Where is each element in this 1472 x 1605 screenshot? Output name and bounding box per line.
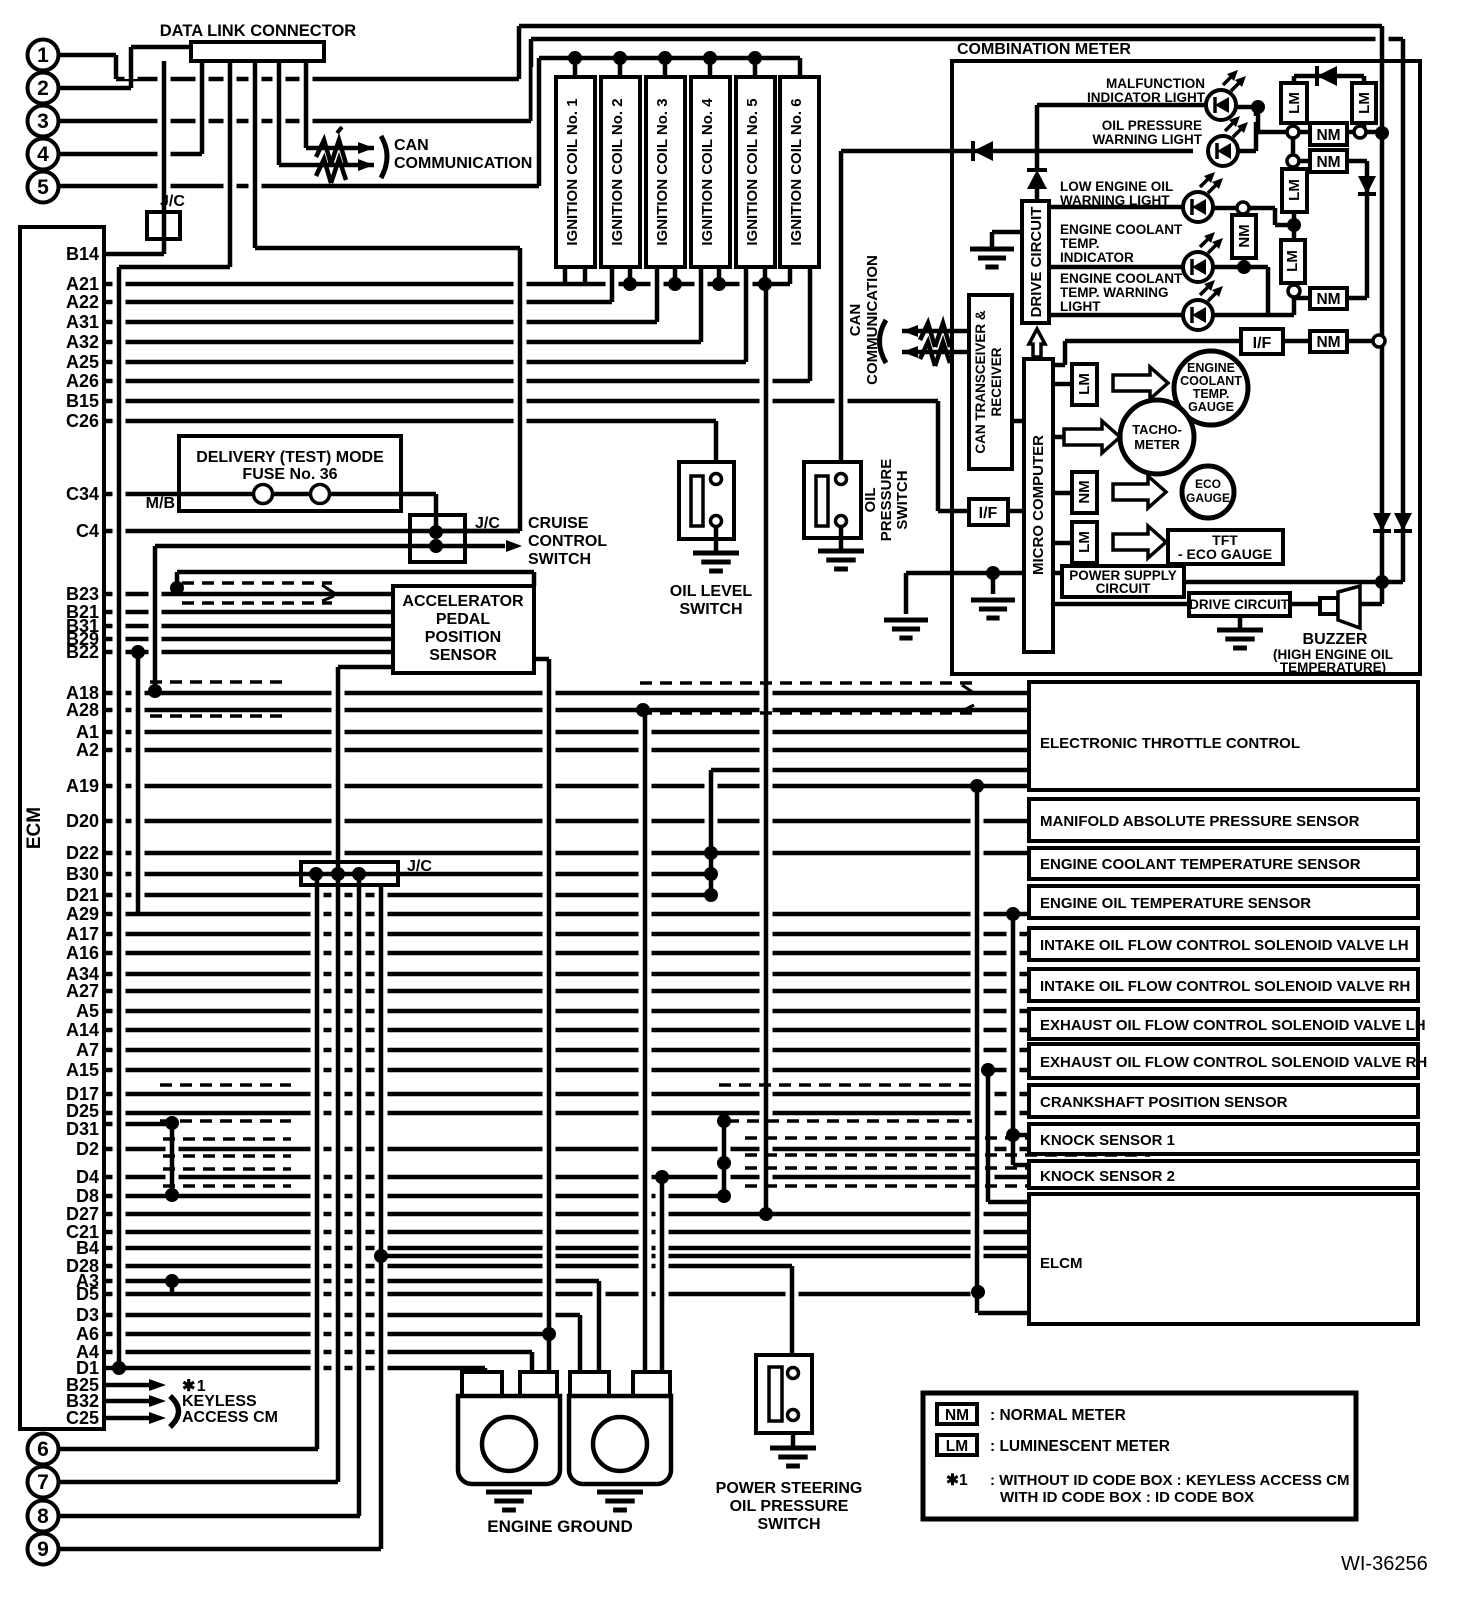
- wire left rail to D1: [113, 276, 126, 1359]
- wire buzzer rail a: [1376, 35, 1389, 595]
- wire micro to LM1: [1053, 382, 1072, 387]
- svg-text:OIL LEVEL: OIL LEVEL: [670, 583, 753, 600]
- wire coil top leg 2: [614, 67, 627, 68]
- svg-text:CONTROL: CONTROL: [528, 533, 607, 550]
- svg-text:B22: B22: [66, 642, 99, 662]
- junction right knock drains: [717, 1114, 731, 1128]
- svg-text:ENGINE: ENGINE: [1187, 361, 1235, 375]
- legend LM symbol: [937, 1435, 977, 1455]
- svg-text:NM: NM: [1316, 154, 1340, 171]
- wire node3 J/C feed: [255, 246, 520, 251]
- arrow micro to drive circuit: [1029, 329, 1045, 357]
- TFT eco gauge box: [1168, 530, 1283, 564]
- svg-text:RECEIVER: RECEIVER: [989, 347, 1004, 416]
- svg-text:J/C: J/C: [407, 858, 432, 875]
- PSP ground: [791, 1433, 796, 1448]
- svg-text:OIL PRESSURE: OIL PRESSURE: [1102, 118, 1202, 133]
- svg-text:A2: A2: [76, 740, 99, 760]
- oil pressure switch slot: [816, 476, 828, 526]
- wire A4 drop to ground: [526, 1361, 539, 1365]
- svg-text:: NORMAL METER: : NORMAL METER: [990, 1407, 1126, 1424]
- svg-text:TEMP. WARNING: TEMP. WARNING: [1060, 285, 1169, 300]
- wire NM3 left: [1294, 296, 1310, 301]
- manifold absolute pressure sensor box: [1029, 799, 1418, 841]
- wire from node 1: [59, 53, 116, 58]
- svg-text:D27: D27: [66, 1204, 99, 1224]
- junction node9/ELCM: [374, 1249, 388, 1263]
- node 5 (circled connector 5): [28, 172, 59, 203]
- wire right knock shield drain: [718, 1119, 731, 1187]
- svg-text:IGNITION COIL No. 4: IGNITION COIL No. 4: [699, 98, 716, 246]
- svg-text:A29: A29: [66, 904, 99, 924]
- buzzer: [1320, 598, 1338, 614]
- wire A14: [104, 1028, 1029, 1033]
- I/F box 1: [969, 499, 1008, 525]
- svg-text:PEDAL: PEDAL: [436, 611, 490, 628]
- power steering oil pressure switch box: [756, 1355, 812, 1433]
- wire B15 to I/F: [938, 509, 969, 514]
- svg-text:TEMP.: TEMP.: [1193, 387, 1230, 401]
- wire B15: [104, 399, 938, 404]
- wire coil6 right leg: [804, 275, 817, 372]
- wire C21: [104, 1230, 1029, 1235]
- wire micro to PSC: [1053, 571, 1062, 576]
- wire B31: [104, 624, 393, 629]
- svg-text:CRUISE: CRUISE: [528, 515, 589, 532]
- wire D20: [104, 819, 1029, 824]
- engine oil temperature sensor box: [1029, 886, 1418, 918]
- wire CAN L: [902, 350, 969, 355]
- legend NM symbol: [937, 1404, 977, 1424]
- wire A15: [104, 1068, 1029, 1073]
- wire meter ground stem b: [987, 582, 1000, 596]
- wire buzzer rail b: [1397, 48, 1410, 573]
- svg-text:LM: LM: [1286, 179, 1303, 201]
- wire riser node3: [525, 48, 538, 112]
- wire A29 knock rail: [1007, 923, 1020, 1156]
- diode MIL drive: [1027, 168, 1047, 172]
- tachometer: [1120, 400, 1194, 474]
- wire accel sensor top feed: [177, 570, 534, 575]
- junction MIL/OPWL: [1251, 100, 1265, 114]
- svg-text:B14: B14: [66, 244, 99, 264]
- wire LEOWL: [1049, 205, 1183, 210]
- LED engine coolant temp warning light: [1183, 300, 1213, 330]
- wire J/C bottom to cruise switch: [155, 544, 505, 549]
- shield A18/A28 left (dashed): [150, 680, 285, 684]
- svg-text:COOLANT: COOLANT: [1180, 374, 1242, 388]
- wire coil6 left leg: [788, 266, 793, 284]
- oil pressure switch ground: [839, 527, 844, 551]
- wire J/C top: [436, 529, 520, 534]
- wire NM2 right: [1347, 159, 1367, 164]
- LED engine coolant temp indicator: [1183, 252, 1213, 282]
- svg-text:GAUGE: GAUGE: [1186, 491, 1230, 505]
- wire from node 7: [59, 1480, 338, 1485]
- svg-text:C25: C25: [66, 1408, 99, 1428]
- fuse terminal circles: [254, 485, 273, 504]
- svg-text:EXHAUST OIL FLOW CONTROL SOLEN: EXHAUST OIL FLOW CONTROL SOLENOID VALVE …: [1040, 1017, 1426, 1034]
- junction A29: [1006, 907, 1020, 921]
- svg-text:CAN TRANSCEIVER &: CAN TRANSCEIVER &: [973, 310, 988, 454]
- wire D2: [104, 1147, 1029, 1152]
- svg-text:WITH ID CODE BOX : ID CODE BO: WITH ID CODE BOX : ID CODE BOX: [1000, 1489, 1254, 1506]
- svg-text:IGNITION COIL No. 5: IGNITION COIL No. 5: [744, 98, 761, 245]
- svg-text:CAN: CAN: [394, 137, 429, 154]
- junction B23 shield: [170, 581, 184, 595]
- svg-text:ELCM: ELCM: [1040, 1255, 1083, 1272]
- wire A3 drop to ground: [593, 1290, 606, 1365]
- drive circuit box: [1022, 201, 1049, 323]
- engine coolant temp gauge: [1174, 351, 1248, 425]
- svg-text:8: 8: [37, 1505, 49, 1528]
- oil level switch pins: [711, 474, 722, 485]
- wire A2: [104, 748, 1029, 753]
- wire coil top leg 4: [704, 67, 717, 68]
- wire coil5 right leg: [763, 266, 768, 284]
- svg-text:DRIVE CIRCUIT: DRIVE CIRCUIT: [1189, 597, 1290, 612]
- wire DLC leg 3: [249, 70, 262, 239]
- wire C26 drop to oil level switch: [710, 430, 723, 464]
- svg-text:- ECO GAUGE: - ECO GAUGE: [1178, 546, 1272, 562]
- junction A18 shield: [148, 684, 162, 698]
- wire coil top leg 1: [569, 67, 582, 68]
- svg-text:D22: D22: [66, 843, 99, 863]
- wire A3: [104, 1279, 599, 1284]
- wire A19 rail: [971, 795, 984, 1304]
- wire A28: [104, 708, 1029, 713]
- wire rail node8: [353, 883, 366, 1507]
- wire I/F2 feed riser: [1059, 350, 1072, 356]
- svg-text:NM: NM: [945, 1407, 969, 1424]
- oil pressure switch box: [804, 462, 861, 538]
- engine ground terminal 2: [570, 1372, 609, 1396]
- svg-text:LOW ENGINE OIL: LOW ENGINE OIL: [1060, 179, 1173, 194]
- wire DC2 to buzzer: [1290, 602, 1320, 607]
- wire LM top link: [1294, 74, 1364, 79]
- svg-text:EXHAUST OIL FLOW CONTROL SOLEN: EXHAUST OIL FLOW CONTROL SOLENOID VALVE …: [1040, 1054, 1427, 1071]
- shield A18/A28 right (dashed): [640, 681, 975, 685]
- ground drive circuit: [990, 232, 995, 249]
- ground meter b: [971, 598, 1015, 603]
- intake oil flow control solenoid valve RH box: [1029, 969, 1418, 1001]
- wire OPWL feed entry: [841, 149, 952, 154]
- svg-text:SWITCH: SWITCH: [679, 601, 742, 618]
- node 7 (circled connector 7): [28, 1467, 59, 1498]
- svg-text:ACCELERATOR: ACCELERATOR: [402, 593, 524, 610]
- ground symbol 1: [486, 1490, 532, 1495]
- svg-text:A31: A31: [66, 312, 99, 332]
- junction D1/left rail: [112, 1361, 126, 1375]
- oil level switch slot: [691, 476, 703, 526]
- wire from node 2: [59, 86, 131, 91]
- svg-text:A32: A32: [66, 332, 99, 352]
- diode OPWL feed: [971, 141, 975, 161]
- svg-text:FUSE No. 36: FUSE No. 36: [242, 466, 337, 483]
- wire A31: [104, 320, 657, 325]
- wire D28: [104, 1264, 792, 1269]
- svg-text:I/F: I/F: [979, 505, 998, 522]
- wire NMv top leg: [1242, 208, 1247, 215]
- svg-text:PRESSURE: PRESSURE: [878, 459, 895, 542]
- diode NM2 chain: [1358, 192, 1376, 196]
- svg-text:: LUMINESCENT METER: : LUMINESCENT METER: [990, 1438, 1170, 1455]
- PSP switch slot: [769, 1367, 782, 1421]
- wire B21: [104, 610, 393, 615]
- junction left knock drains: [165, 1116, 179, 1130]
- NM gauge box: [1072, 472, 1097, 513]
- svg-text:INTAKE OIL FLOW CONTROL SOLENO: INTAKE OIL FLOW CONTROL SOLENOID VALVE L…: [1040, 937, 1409, 954]
- svg-text:COMMUNICATION: COMMUNICATION: [864, 255, 881, 385]
- wire A19: [104, 784, 1029, 789]
- NM box 3: [1310, 288, 1347, 309]
- wire C34: [104, 492, 254, 497]
- ignition supply bus: [539, 56, 800, 61]
- svg-text:CRANKSHAFT POSITION SENSOR: CRANKSHAFT POSITION SENSOR: [1040, 1094, 1288, 1111]
- svg-text:A22: A22: [66, 292, 99, 312]
- svg-text:BUZZER: BUZZER: [1303, 631, 1368, 648]
- node 8 (circled connector 8): [28, 1501, 59, 1532]
- svg-text:DELIVERY (TEST) MODE: DELIVERY (TEST) MODE: [196, 449, 384, 466]
- wire coil1 left leg: [563, 266, 568, 284]
- svg-text:D3: D3: [76, 1305, 99, 1325]
- wire D31: [104, 1122, 172, 1127]
- junction A6 ground: [542, 1327, 556, 1341]
- arrow to ECT gauge: [1113, 367, 1168, 399]
- svg-text:NM: NM: [1076, 480, 1093, 503]
- wire coil5 left leg: [740, 275, 753, 353]
- svg-text:IGNITION COIL No. 1: IGNITION COIL No. 1: [564, 98, 581, 245]
- junction D31 branch: [1006, 1128, 1020, 1142]
- wire I/F2 feed: [1065, 339, 1241, 344]
- wire D4 drain to ground: [656, 1186, 669, 1365]
- wire NM2 diode riser: [1361, 170, 1374, 289]
- wire D25: [104, 1111, 1029, 1116]
- junction connector J/C (DLC): [147, 212, 180, 239]
- wire KN2 feed: [1013, 1163, 1029, 1168]
- wire D1: [104, 1366, 485, 1371]
- svg-text:1: 1: [37, 44, 49, 67]
- svg-text:POSITION: POSITION: [425, 629, 501, 646]
- svg-text:A15: A15: [66, 1060, 99, 1080]
- wire riser node1 jog: [110, 64, 123, 70]
- wire from node 9: [59, 1547, 381, 1552]
- wire A18: [104, 691, 1029, 696]
- svg-text:LM: LM: [1076, 531, 1093, 553]
- svg-text:D4: D4: [76, 1167, 99, 1187]
- wire shield drain left knock: [166, 1119, 179, 1186]
- LED low engine oil warning light: [1183, 192, 1213, 222]
- wire KN1 feed: [1013, 1133, 1029, 1138]
- node 6 (circled connector 6): [28, 1434, 59, 1465]
- knock sensor 2 box: [1029, 1161, 1418, 1188]
- svg-text:A6: A6: [76, 1324, 99, 1344]
- svg-text:LM: LM: [1076, 373, 1093, 395]
- ground symbol 2: [597, 1490, 643, 1495]
- wire riser node2 jog: [125, 56, 138, 79]
- wire CANTR to micro: [1012, 419, 1024, 424]
- LM box 3: [1282, 169, 1307, 212]
- wire D22: [104, 851, 1029, 856]
- svg-text:A26: A26: [66, 371, 99, 391]
- shield crankshaft right (dashed): [719, 1083, 972, 1087]
- NM box vertical: [1232, 215, 1256, 258]
- wire C4: [104, 529, 520, 534]
- svg-text:DRIVE CIRCUIT: DRIVE CIRCUIT: [1028, 207, 1045, 318]
- svg-text:SWITCH: SWITCH: [757, 1516, 820, 1533]
- junction buzzer rail bottom: [1375, 575, 1389, 589]
- svg-text:A17: A17: [66, 924, 99, 944]
- svg-text:WI-36256: WI-36256: [1341, 1553, 1428, 1575]
- svg-text:B15: B15: [66, 391, 99, 411]
- wire D1 drop to ground: [483, 1368, 488, 1374]
- wire A6: [104, 1332, 549, 1337]
- wire rail node7: [332, 676, 345, 1473]
- wire PSC to buzzer rail: [1184, 580, 1403, 585]
- LM box 2: [1352, 83, 1376, 123]
- ignition coil No. 1 box: [556, 77, 595, 267]
- svg-text:A1: A1: [76, 722, 99, 742]
- svg-text:ECO: ECO: [1195, 477, 1221, 491]
- svg-text:B4: B4: [76, 1238, 99, 1258]
- wire accel sensor bottom to J/C-B30: [338, 665, 393, 670]
- wire D17: [104, 1092, 1029, 1097]
- wire ECT warning: [1049, 313, 1183, 318]
- wire buzzer to rail: [1360, 602, 1382, 607]
- svg-text:D31: D31: [66, 1119, 99, 1139]
- wire riser J/C feed: [514, 257, 527, 522]
- wire micro to NMg: [1053, 491, 1072, 496]
- svg-text:GAUGE: GAUGE: [1188, 400, 1234, 414]
- wire micro to DC2: [1053, 602, 1189, 607]
- combination meter box: [952, 61, 1420, 674]
- wire micro to LMg2: [1053, 541, 1072, 546]
- ignition coil No. 6 box: [780, 77, 819, 267]
- wire LM2 top leg: [1362, 76, 1367, 83]
- legend box: [923, 1393, 1356, 1519]
- twisted pair symbol (meter): [920, 323, 950, 366]
- svg-text:ENGINE COOLANT: ENGINE COOLANT: [1060, 222, 1183, 237]
- oil level switch ground: [714, 527, 719, 553]
- svg-text:B30: B30: [66, 864, 99, 884]
- svg-text:COMBINATION METER: COMBINATION METER: [957, 41, 1131, 58]
- svg-text:CAN: CAN: [847, 304, 864, 337]
- wire I/F2 to NM4: [1283, 339, 1310, 344]
- I/F box 2: [1241, 329, 1283, 354]
- junction A19: [970, 779, 984, 793]
- junction drive chain: [704, 846, 718, 860]
- junction bus drain end: [759, 1207, 773, 1221]
- wire B15 riser: [932, 410, 945, 502]
- wire LM column a: [1287, 141, 1300, 171]
- arrow to eco gauge: [1113, 476, 1166, 508]
- junction buzzer rail top: [1375, 126, 1389, 140]
- svg-text:A5: A5: [76, 1001, 99, 1021]
- wire drive-circuit chain to ETC: [711, 768, 1029, 773]
- svg-text:M/B: M/B: [146, 495, 175, 512]
- wire LEOWL link: [1275, 223, 1294, 228]
- diode LM link: [1315, 66, 1319, 86]
- LED oil pressure warning light: [1208, 136, 1238, 166]
- wire coil4 left leg: [695, 275, 708, 333]
- wire coil3 left leg: [651, 275, 664, 313]
- wire ECT indicator: [1049, 265, 1183, 270]
- wire LM1 top leg: [1292, 76, 1297, 83]
- wire meter ground stem a: [900, 582, 913, 616]
- wire coil top leg 6: [794, 67, 807, 68]
- wire B22: [104, 650, 393, 655]
- svg-text:TEMP.: TEMP.: [1060, 236, 1100, 251]
- wire D27: [104, 1212, 1029, 1217]
- wire A34: [104, 972, 1029, 977]
- shield D2 left (dashed): [163, 1137, 291, 1141]
- wire A3 to D5 link: [170, 1281, 175, 1294]
- exhaust oil flow control solenoid valve LH box: [1029, 1009, 1418, 1039]
- crankshaft position sensor box: [1029, 1085, 1418, 1117]
- LED malfunction indicator light: [1206, 90, 1236, 120]
- diode buzzer rail b: [1394, 529, 1412, 533]
- svg-text:D5: D5: [76, 1284, 99, 1304]
- wire accel ground drain: [543, 668, 556, 1365]
- wire A28 shield drain to ground: [639, 719, 652, 1365]
- svg-text:D8: D8: [76, 1186, 99, 1206]
- wire bus drain: [760, 294, 773, 1205]
- svg-text:COMMUNICATION: COMMUNICATION: [394, 155, 532, 172]
- wire A1: [104, 730, 1029, 735]
- svg-text:A16: A16: [66, 943, 99, 963]
- wire D4: [104, 1175, 1029, 1180]
- wire coil4 right leg: [717, 266, 722, 284]
- svg-text:INTAKE OIL FLOW CONTROL SOLENO: INTAKE OIL FLOW CONTROL SOLENOID VALVE R…: [1040, 978, 1410, 995]
- wire D5: [104, 1292, 978, 1297]
- svg-text:ENGINE COOLANT: ENGINE COOLANT: [1060, 271, 1183, 286]
- junction connector J/C (B30): [301, 862, 398, 885]
- ECM connector box: [20, 227, 104, 1429]
- svg-text:IGNITION COIL No. 3: IGNITION COIL No. 3: [654, 98, 671, 245]
- wire LM1 bottom leg: [1288, 121, 1301, 123]
- wire MIL: [1037, 103, 1206, 108]
- wire coil2 left leg: [606, 275, 619, 293]
- NM box 1: [1310, 123, 1347, 145]
- wire A4: [104, 1350, 532, 1355]
- arrow to tachometer: [1064, 421, 1120, 453]
- wire rail node9: [375, 883, 388, 1540]
- wire A27: [104, 989, 1029, 994]
- ignition coil No. 4 box: [691, 77, 730, 267]
- eco gauge: [1182, 466, 1234, 518]
- svg-text:A28: A28: [66, 700, 99, 720]
- wire B23: [104, 592, 393, 597]
- intake oil flow control solenoid valve LH box: [1029, 928, 1418, 960]
- wire A7: [104, 1048, 1029, 1053]
- junction J/C cruise: [429, 525, 443, 539]
- wire from node 4: [59, 152, 202, 157]
- engine coolant temperature sensor box: [1029, 848, 1418, 879]
- wire A21: [104, 282, 790, 287]
- wire CAN H: [902, 329, 969, 334]
- svg-text:A7: A7: [76, 1040, 99, 1060]
- NM box 2: [1310, 150, 1347, 172]
- wire NM2 left: [1293, 159, 1310, 164]
- wire A15 rail: [982, 1079, 995, 1193]
- svg-text:DATA LINK CONNECTOR: DATA LINK CONNECTOR: [160, 22, 357, 40]
- wire shield drain A18: [149, 555, 162, 684]
- wire A17: [104, 932, 1029, 937]
- wire LM2 bottom leg: [1358, 121, 1371, 123]
- micro computer box: [1024, 359, 1053, 652]
- oil level switch box: [679, 462, 734, 539]
- svg-text:SWITCH: SWITCH: [894, 470, 911, 529]
